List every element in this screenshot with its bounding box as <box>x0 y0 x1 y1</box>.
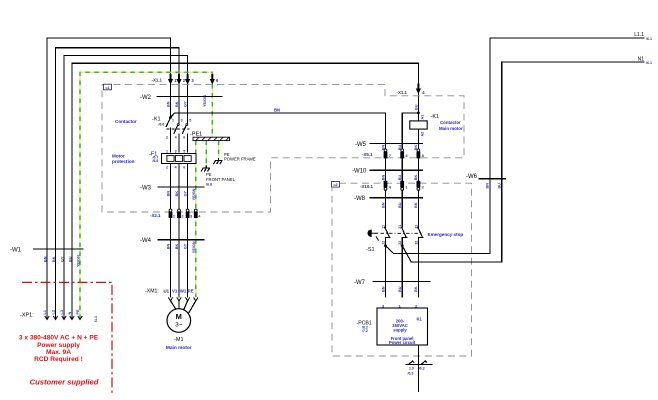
svg-text:=2: =2 <box>333 182 338 187</box>
wire S1 to N1 out <box>402 62 644 262</box>
svg-text:GY: GY <box>183 190 187 196</box>
wire L3 F1 to motor <box>187 164 189 298</box>
enclosure =2 front panel boundary <box>332 183 472 356</box>
svg-text:FRONT PANEL: FRONT PANEL <box>206 177 236 182</box>
svg-text:/6.8: /6.8 <box>206 183 212 187</box>
node S1 output L <box>384 244 387 247</box>
svg-text:6: 6 <box>183 136 185 140</box>
svg-text:-W1: -W1 <box>10 248 22 254</box>
cable W8 <box>354 196 423 208</box>
cable W7 <box>354 280 430 292</box>
svg-text:GY: GY <box>183 101 187 107</box>
svg-text:BN: BN <box>274 107 280 112</box>
wire PE drop to front panel ground <box>205 141 207 166</box>
svg-text:1: 1 <box>166 150 168 154</box>
wire L3 supply <box>64 56 188 320</box>
node N junction at coil <box>417 112 420 115</box>
terminal X1.1 pins 1 2 3 <box>152 74 195 85</box>
wire X5.1 to X10.1 runs <box>386 158 419 181</box>
svg-text:YE/GN: YE/GN <box>192 241 196 253</box>
svg-text:BN: BN <box>486 183 490 189</box>
enclosure label =2 <box>332 182 340 188</box>
ground stub below PCB1 <box>406 345 432 392</box>
cable W1 <box>10 248 83 268</box>
wire N stub to X5.1 pin 4 <box>402 113 418 152</box>
motor protection F1 <box>112 150 196 170</box>
svg-text:-PE1: -PE1 <box>190 132 202 138</box>
wire BN tap to coil circuit <box>171 107 386 151</box>
terminal XP1 <box>20 309 98 322</box>
svg-text:-W8: -W8 <box>354 196 366 202</box>
svg-text:BU: BU <box>398 175 402 181</box>
svg-text:N: N <box>68 312 72 315</box>
svg-text:YE/GN: YE/GN <box>192 188 196 200</box>
svg-text:-W7: -W7 <box>354 280 366 286</box>
svg-text:-X5.1: -X5.1 <box>362 152 373 157</box>
svg-text:PE: PE <box>76 309 80 315</box>
svg-text:GY: GY <box>183 243 187 249</box>
wire L2 F1 to motor <box>178 164 180 298</box>
contactor K1 main contacts <box>115 116 191 152</box>
wire N supply <box>72 63 418 319</box>
svg-text:-W2: -W2 <box>140 95 152 101</box>
svg-text:Main motor: Main motor <box>439 126 463 131</box>
svg-text:-XM1:: -XM1: <box>145 289 159 295</box>
emergency stop S1 <box>366 225 463 297</box>
svg-text:=1: =1 <box>105 85 110 90</box>
svg-text:/6.1: /6.1 <box>646 37 652 41</box>
svg-text:protection: protection <box>112 159 135 164</box>
contactor coil K1 <box>410 113 463 152</box>
svg-text:Contactor: Contactor <box>440 120 461 125</box>
svg-text:-K1: -K1 <box>431 114 440 120</box>
svg-text:V1: V1 <box>172 288 178 293</box>
wire PE drop to power frame ground <box>218 141 220 159</box>
terminal X1.1 pin 6 (PE) <box>210 74 219 85</box>
svg-text:GY: GY <box>60 256 64 262</box>
svg-text:4: 4 <box>175 136 177 140</box>
svg-text:Power supply: Power supply <box>37 342 80 349</box>
svg-text:BK: BK <box>414 202 418 208</box>
terminal X2.1 <box>150 209 201 218</box>
enclosure label =1 <box>104 84 112 90</box>
svg-text:1.3: 1.3 <box>409 367 414 371</box>
svg-text:-X1.1: -X1.1 <box>397 90 408 95</box>
svg-text:L3: L3 <box>60 310 64 314</box>
svg-text:4: 4 <box>175 165 177 169</box>
svg-text:A2: A2 <box>420 132 424 137</box>
svg-text:5: 5 <box>189 119 191 123</box>
terminal X10.1 <box>360 181 425 191</box>
svg-text:Motor: Motor <box>112 154 125 159</box>
svg-text:-W6: -W6 <box>466 174 478 180</box>
cable W10 <box>352 169 423 181</box>
wire S1 outputs down to PCB1 <box>386 246 403 297</box>
svg-text:Power circuit: Power circuit <box>389 340 416 345</box>
svg-text:-W4: -W4 <box>140 238 152 244</box>
wire L1 F1 to motor <box>170 164 172 298</box>
cable W3 <box>140 185 204 200</box>
svg-text:/6.1: /6.1 <box>646 61 652 65</box>
svg-text:BK: BK <box>414 286 418 292</box>
svg-text:-W10: -W10 <box>352 169 367 175</box>
svg-text:YE/GN: YE/GN <box>76 255 80 267</box>
svg-text:BU: BU <box>398 286 402 292</box>
PCB1 front panel power circuit <box>357 303 428 345</box>
svg-text:POWER FRAME: POWER FRAME <box>224 156 256 161</box>
svg-text:/6.3: /6.3 <box>408 372 414 376</box>
svg-text:L1: L1 <box>43 310 47 314</box>
svg-text:/7.2: /7.2 <box>362 329 368 333</box>
cable W4 <box>140 238 204 253</box>
svg-text:PE: PE <box>188 288 194 293</box>
motor M1 <box>166 301 196 351</box>
svg-text:BK: BK <box>52 256 56 262</box>
svg-text:A1: A1 <box>420 115 424 120</box>
svg-text:BN: BN <box>381 202 385 208</box>
svg-text:5: 5 <box>183 150 185 154</box>
svg-text:BU: BU <box>398 202 402 208</box>
svg-text:BN: BN <box>381 175 385 181</box>
svg-text:BN: BN <box>43 256 47 262</box>
svg-text:/6.3: /6.3 <box>419 367 425 371</box>
cable W6 <box>466 174 505 188</box>
svg-text:L2: L2 <box>52 310 56 314</box>
terminal X5.1 <box>362 149 425 159</box>
svg-text:BU: BU <box>497 183 501 189</box>
power supply red text <box>19 335 99 387</box>
svg-text:Emergency stop: Emergency stop <box>428 232 464 237</box>
svg-text:3: 3 <box>181 119 183 123</box>
cable W5 <box>355 142 423 150</box>
svg-text:-W3: -W3 <box>140 185 152 191</box>
svg-text:U1: U1 <box>163 288 169 293</box>
svg-text:BK: BK <box>414 175 418 181</box>
svg-text:N1: N1 <box>638 56 645 62</box>
ground PE power frame <box>214 152 256 164</box>
svg-text:BK: BK <box>175 101 179 107</box>
svg-text:BK: BK <box>175 191 179 197</box>
wire X10.1 to S1 runs <box>386 190 419 227</box>
svg-text:M: M <box>176 312 182 321</box>
wire PE drop to X2.1 and motor <box>195 141 197 297</box>
svg-text:BU: BU <box>68 256 72 262</box>
svg-text:supply: supply <box>393 327 407 332</box>
svg-text:BN: BN <box>381 286 385 292</box>
node S1 output N <box>401 244 404 247</box>
svg-text:3: 3 <box>175 150 177 154</box>
svg-text:BN: BN <box>166 101 170 107</box>
svg-text:BK: BK <box>175 243 179 249</box>
svg-text:YE/GN: YE/GN <box>203 95 207 107</box>
enclosure =1 cabinet boundary <box>102 85 464 212</box>
svg-text:12: 12 <box>381 241 385 245</box>
svg-text:Max. 9A: Max. 9A <box>46 349 71 356</box>
svg-text:2: 2 <box>166 136 168 140</box>
svg-text:2: 2 <box>166 165 168 169</box>
svg-text:-XP1:: -XP1: <box>20 313 34 319</box>
svg-text:K1: K1 <box>417 316 423 321</box>
wire L1 supply <box>47 38 171 319</box>
svg-text:-W5: -W5 <box>355 142 367 148</box>
svg-text:3~: 3~ <box>175 322 183 329</box>
svg-text:BU: BU <box>415 104 419 110</box>
svg-text:-X2.1: -X2.1 <box>150 213 161 218</box>
svg-text:-S1: -S1 <box>366 247 375 253</box>
wire PE supply yellow-green <box>80 72 212 319</box>
svg-text:11: 11 <box>381 225 385 229</box>
svg-text:Customer supplied: Customer supplied <box>30 378 99 387</box>
svg-text:21: 21 <box>398 225 402 229</box>
svg-text:31: 31 <box>414 225 418 229</box>
svg-text:1: 1 <box>172 119 174 123</box>
svg-text:6: 6 <box>183 165 185 169</box>
svg-text:RCD Required !: RCD Required ! <box>34 356 83 363</box>
svg-text:Main motor: Main motor <box>166 345 192 351</box>
wire S1 to L1.1 out <box>386 38 645 254</box>
svg-text:L1.1: L1.1 <box>634 32 644 38</box>
svg-text:-M1: -M1 <box>174 337 183 343</box>
customer supply red boundary <box>22 282 112 396</box>
svg-text:/6.6: /6.6 <box>159 122 165 126</box>
svg-text:3 x 380-480V AC + N + PE: 3 x 380-480V AC + N + PE <box>19 335 99 342</box>
svg-text:/6.8: /6.8 <box>153 159 159 163</box>
svg-text:W1: W1 <box>180 288 187 293</box>
wire L2 supply <box>56 48 180 319</box>
svg-text:/1.1: /1.1 <box>94 316 98 322</box>
PE bar PE1 <box>190 132 230 141</box>
svg-text:Contactor: Contactor <box>115 119 137 124</box>
terminal X1.1 pin 4 (N) <box>397 84 426 96</box>
svg-text:32: 32 <box>414 241 418 245</box>
svg-text:BN: BN <box>166 191 170 197</box>
svg-text:-X1.1: -X1.1 <box>152 78 163 83</box>
cable W2 <box>140 95 222 107</box>
svg-text:-X10.1: -X10.1 <box>360 184 373 189</box>
ground PE front panel <box>201 166 235 187</box>
svg-text:BN: BN <box>166 243 170 249</box>
terminal XM1 <box>145 288 198 301</box>
svg-text:22: 22 <box>398 241 402 245</box>
